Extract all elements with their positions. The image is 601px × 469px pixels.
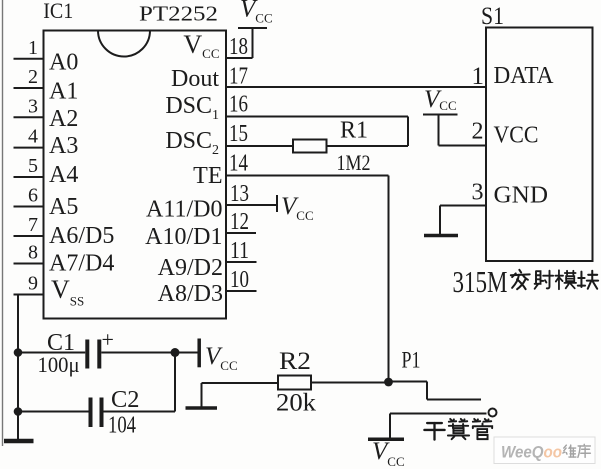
svg-text:PT2252: PT2252 — [139, 2, 218, 26]
svg-text:VCC: VCC — [494, 123, 539, 149]
svg-text:1M2: 1M2 — [337, 150, 371, 175]
svg-text:C2: C2 — [111, 387, 140, 413]
svg-text:A0: A0 — [49, 50, 78, 76]
svg-text:VCC: VCC — [372, 438, 405, 469]
svg-text:16: 16 — [229, 92, 248, 118]
svg-text:DATA: DATA — [494, 63, 555, 89]
svg-text:4: 4 — [28, 126, 38, 148]
svg-text:315M: 315M — [453, 264, 508, 299]
svg-text:Dout: Dout — [171, 66, 219, 92]
svg-text:R1: R1 — [340, 118, 368, 144]
svg-text:8: 8 — [28, 242, 38, 264]
svg-text:VSS: VSS — [51, 275, 84, 309]
svg-text:9: 9 — [28, 273, 38, 295]
svg-text:104: 104 — [108, 413, 136, 439]
svg-text:2: 2 — [472, 119, 484, 145]
svg-text:10: 10 — [230, 267, 249, 293]
svg-text:1: 1 — [472, 63, 485, 90]
svg-text:VCC: VCC — [281, 193, 314, 223]
svg-text:P1: P1 — [402, 348, 421, 373]
svg-text:S1: S1 — [481, 3, 504, 30]
svg-text:WeeQoo: WeeQoo — [501, 443, 562, 462]
svg-text:DSC1: DSC1 — [165, 93, 219, 123]
svg-text:14: 14 — [229, 151, 248, 177]
svg-text:A1: A1 — [49, 79, 78, 105]
svg-text:A8/D3: A8/D3 — [158, 281, 223, 307]
svg-text:3: 3 — [472, 180, 484, 206]
svg-text:A4: A4 — [49, 162, 78, 188]
svg-text:VCC: VCC — [205, 343, 238, 373]
svg-text:17: 17 — [229, 64, 248, 90]
svg-text:A7/D4: A7/D4 — [49, 251, 114, 277]
svg-text:A10/D1: A10/D1 — [145, 224, 222, 250]
svg-text:VCC: VCC — [424, 86, 457, 113]
svg-text:18: 18 — [229, 34, 248, 60]
svg-text:13: 13 — [230, 181, 249, 207]
svg-text:DSC2: DSC2 — [165, 128, 219, 158]
svg-text:A9/D2: A9/D2 — [158, 255, 223, 281]
svg-text:A3: A3 — [49, 133, 78, 159]
svg-text:15: 15 — [229, 121, 248, 147]
svg-text:11: 11 — [230, 238, 249, 264]
svg-text:3: 3 — [28, 95, 38, 117]
svg-text:IC1: IC1 — [43, 0, 73, 23]
svg-text:A11/D0: A11/D0 — [146, 197, 222, 223]
svg-text:+: + — [102, 327, 114, 352]
svg-text:2: 2 — [28, 66, 38, 88]
svg-text:VCC: VCC — [240, 0, 273, 26]
svg-text:GND: GND — [494, 183, 549, 209]
svg-text:20k: 20k — [276, 390, 317, 417]
svg-text:A5: A5 — [49, 194, 78, 220]
svg-text:A6/D5: A6/D5 — [49, 223, 114, 249]
svg-text:12: 12 — [230, 209, 249, 235]
svg-text:1: 1 — [28, 37, 38, 59]
svg-text:7: 7 — [28, 214, 38, 236]
svg-text:6: 6 — [28, 185, 38, 207]
svg-text:100μ: 100μ — [38, 352, 80, 377]
svg-text:R2: R2 — [279, 348, 311, 375]
svg-text:TE: TE — [193, 163, 222, 189]
svg-text:VCC: VCC — [183, 30, 219, 61]
svg-text:5: 5 — [28, 155, 38, 177]
svg-text:A2: A2 — [49, 106, 78, 132]
